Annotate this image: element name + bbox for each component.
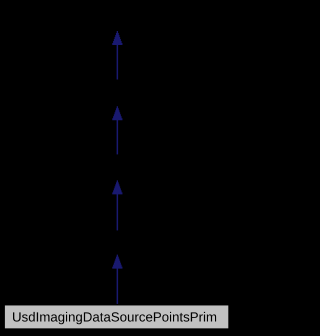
inheritance graph [0,0,235,336]
wire: inheritance arrow 4 (into node box) [112,255,122,305]
wire: inheritance arrow 3 [112,180,122,230]
wire: inheritance arrow 1 (topmost) [112,31,122,80]
node box UsdImagingDataSourcePointsPrim (current class, grey fill, black border) [4,305,229,329]
label text "UsdImagingDataSourcePointsPrim" (as outlines) [13,312,216,324]
wire: inheritance arrow 2 [112,106,122,154]
